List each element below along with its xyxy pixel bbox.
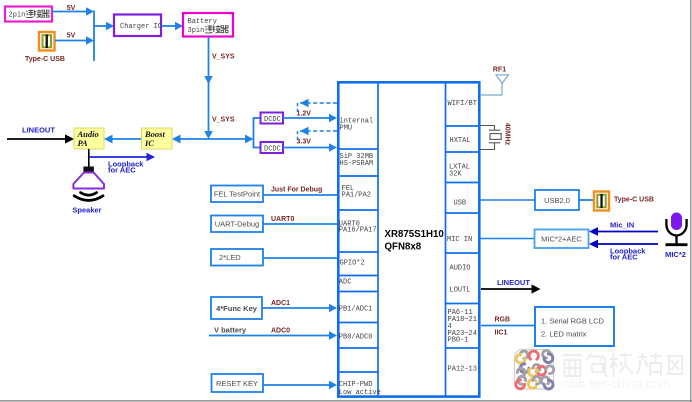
svg-text:IC: IC [144, 138, 154, 148]
svg-text:2. LED matrix: 2. LED matrix [541, 330, 587, 339]
frame right edge [690, 0, 692, 402]
LED D1 2*LED [211, 249, 263, 266]
wire Mic_IN arrow [589, 227, 658, 236]
wire USB2.0 to Type-C [579, 199, 594, 201]
svg-text:Just For Debug: Just For Debug [271, 187, 322, 194]
svg-text:for AEC: for AEC [610, 253, 638, 262]
svg-text:PB0/ADC0: PB0/ADC0 [339, 334, 373, 342]
svg-text:ADC0: ADC0 [271, 328, 290, 335]
svg-text:V battery: V battery [214, 326, 247, 335]
svg-text:3pin: 3pin [188, 27, 205, 35]
svg-text:CHIP-PWD: CHIP-PWD [339, 381, 373, 389]
svg-text:USB: USB [454, 200, 467, 208]
svg-text:32K: 32K [449, 171, 462, 179]
svg-text:MIC*2+AEC: MIC*2+AEC [541, 235, 582, 244]
svg-text:V_SYS: V_SYS [212, 54, 235, 61]
svg-text:PB0-1: PB0-1 [448, 337, 469, 345]
svg-text:2pin: 2pin [9, 12, 26, 20]
wire 1.2V feedback dashed [298, 99, 338, 112]
svg-text:Speaker: Speaker [72, 206, 101, 215]
svg-text:DCDC: DCDC [264, 146, 281, 154]
connector USB2.0 [535, 190, 579, 210]
speaker SPK1 [73, 167, 104, 201]
wire USB to USB2.0 [480, 199, 535, 201]
wire Boost IC to Audio PA [104, 135, 141, 144]
wire 5V from 2pin connector [52, 7, 94, 16]
svg-text:LINEOUT: LINEOUT [22, 126, 55, 135]
charger U1 Charger IC [114, 15, 162, 37]
svg-text:LOUTL: LOUTL [450, 287, 471, 295]
svg-text:UART0: UART0 [271, 216, 294, 223]
svg-text:Type-C USB: Type-C USB [25, 56, 65, 63]
svg-text:GPIO*2: GPIO*2 [340, 260, 365, 268]
wire LINEOUT black arrow from LOUTL [481, 284, 541, 293]
wire Loopback for AEC arrow (right) [589, 240, 658, 249]
connector J1 2pin连接器 [5, 7, 52, 22]
frame bottom edge [0, 400, 692, 402]
svg-text:XR875S1H10: XR875S1H10 [385, 229, 444, 240]
svg-text:PA16/PA17: PA16/PA17 [339, 227, 377, 235]
connector Type-C USB (right) [594, 192, 609, 211]
wire LINEOUT black arrow into Audio PA [7, 134, 74, 143]
svg-text:HXTAL: HXTAL [450, 137, 471, 145]
svg-text:RESET KEY: RESET KEY [216, 379, 258, 388]
wire 1.2V DCDC1 to chip [283, 114, 337, 123]
antenna RF1 [480, 75, 508, 95]
svg-text:WIFI/BT: WIFI/BT [448, 100, 477, 108]
switch 4*Func Key [211, 297, 262, 319]
svg-text:Type-C USB: Type-C USB [614, 197, 654, 204]
SoC U2 XR875S1H10 outline [337, 82, 480, 397]
wire FEL to chip [263, 194, 337, 196]
wire V_SYS vertical from battery [204, 37, 213, 140]
svg-text:3.3V: 3.3V [297, 139, 312, 146]
svg-text:DCDC: DCDC [264, 116, 281, 124]
svg-text:Battery: Battery [188, 18, 217, 26]
display 1. Serial RGB LCD / 2. LED matrix [535, 307, 614, 346]
chip right cell separators [446, 126, 481, 348]
wire ADC1 to chip [262, 304, 337, 313]
watermark logo [515, 350, 554, 390]
svg-text:PMU: PMU [340, 125, 353, 133]
svg-text:Low active: Low active [339, 389, 381, 397]
svg-text:ADC: ADC [339, 279, 352, 287]
wire Loopback for AEC arrow (left) [89, 153, 155, 162]
crystal Y1 40MHz [480, 126, 501, 150]
svg-text:1.2V: 1.2V [297, 111, 312, 118]
connector Type-C USB (left) [39, 32, 55, 51]
wire RESET to chip [263, 381, 337, 390]
microphone MIC*2 [666, 213, 688, 245]
svg-text:40MHz: 40MHz [504, 123, 511, 146]
svg-text:PA18~21: PA18~21 [448, 316, 477, 324]
svg-text:1. Serial RGB LCD: 1. Serial RGB LCD [541, 317, 605, 326]
svg-text:LINEOUT: LINEOUT [497, 278, 530, 287]
svg-text:MIC*2: MIC*2 [665, 250, 686, 259]
svg-text:5V: 5V [67, 33, 76, 40]
svg-text:PB1/ADC1: PB1/ADC1 [339, 306, 373, 314]
svg-text:ADC1: ADC1 [271, 300, 290, 307]
svg-text:4*Func Key: 4*Func Key [216, 304, 258, 313]
wire 3.3V DCDC2 to chip [283, 143, 337, 152]
regulator DCDC1 [261, 113, 284, 125]
svg-text:5V: 5V [67, 5, 76, 12]
svg-text:UART-Debug: UART-Debug [215, 220, 259, 229]
chip right column divider [445, 82, 447, 396]
connector UART-Debug [211, 216, 263, 233]
testpoint FEL TestPoint [211, 186, 263, 203]
amplifier Audio PA [74, 128, 104, 149]
svg-text:USB2.0: USB2.0 [544, 196, 570, 205]
svg-text:AUDIO: AUDIO [450, 265, 471, 273]
svg-text:QFN8x8: QFN8x8 [385, 242, 422, 253]
chip left cell separators [337, 149, 378, 372]
svg-text:2*LED: 2*LED [219, 253, 241, 262]
wire V_SYS bus to Boost IC [172, 135, 254, 144]
wire stub to DCDC2 [253, 147, 260, 149]
svg-text:FEL TestPoint: FEL TestPoint [214, 190, 261, 199]
wire UART0 to chip [263, 223, 337, 225]
connector Battery 3pin连接器 [183, 13, 233, 37]
wire LED to chip [263, 257, 337, 259]
regulator DCDC2 [261, 142, 284, 154]
wire ADC0 to chip [209, 331, 337, 340]
svg-text:RGB: RGB [495, 317, 511, 324]
svg-text:PA12-13: PA12-13 [448, 366, 477, 374]
svg-text:HS-PSRAM: HS-PSRAM [340, 160, 374, 168]
chip left column divider [377, 82, 379, 396]
codec MIC*2+AEC [535, 230, 589, 249]
svg-text:IIC1: IIC1 [495, 330, 508, 337]
svg-text:V_SYS: V_SYS [212, 117, 235, 124]
wire MIC IN to MIC*2+AEC [480, 238, 535, 240]
wire RGB/IIC1 to LCD box [481, 325, 535, 327]
svg-text:mbb.eet-china.com: mbb.eet-china.com [560, 376, 671, 391]
svg-text:Charger IC: Charger IC [120, 23, 162, 31]
svg-text:PA1/PA2: PA1/PA2 [342, 192, 371, 200]
svg-text:Mic_IN: Mic_IN [610, 221, 634, 230]
wire Charger IC to Battery [161, 22, 183, 31]
wire Audio PA to speaker (black) [88, 149, 90, 167]
watermark text 面包板社区 [563, 353, 682, 377]
svg-text:PA: PA [78, 138, 89, 148]
svg-text:for AEC: for AEC [108, 166, 136, 175]
svg-text:MIC IN: MIC IN [447, 236, 472, 244]
wire stub to DCDC1 [253, 117, 260, 119]
switch RESET KEY [212, 374, 264, 392]
wire 3.3V feedback dashed [298, 127, 338, 141]
wire bus to Charger IC [94, 22, 114, 31]
wire 5V bus vertical [93, 11, 95, 62]
wire 5V from Type-C [55, 36, 94, 45]
wire DCDC branch vertical [253, 118, 255, 148]
svg-text:RF1: RF1 [493, 67, 506, 74]
regulator Boost IC [142, 128, 173, 149]
